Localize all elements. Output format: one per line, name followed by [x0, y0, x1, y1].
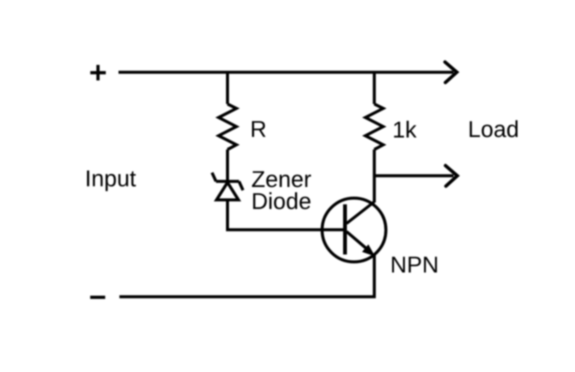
wire R to zener cathode [226, 150, 229, 182]
arrow load output [446, 166, 458, 187]
resistor 1k [365, 104, 383, 150]
transistor Q1 NPN [322, 198, 386, 262]
arrow top rail output [445, 62, 457, 83]
label Zener [252, 171, 311, 187]
wire load output [374, 174, 453, 177]
wire right branch from top rail [373, 72, 376, 104]
wire zener anode to transistor base [228, 200, 345, 230]
label R [252, 121, 266, 137]
label Input [87, 171, 136, 192]
wire emitter to bottom rail [119, 255, 374, 297]
label Diode [253, 192, 310, 209]
minus terminal [90, 296, 105, 299]
wire 1k to transistor collector [373, 150, 376, 203]
wire left branch from top rail [226, 72, 229, 104]
label Load [470, 120, 518, 137]
label NPN [392, 257, 437, 273]
label 1k [394, 121, 417, 138]
resistor R [219, 104, 237, 150]
wire top rail [119, 71, 454, 74]
plus terminal [90, 65, 106, 81]
zener diode D1 [212, 173, 243, 200]
